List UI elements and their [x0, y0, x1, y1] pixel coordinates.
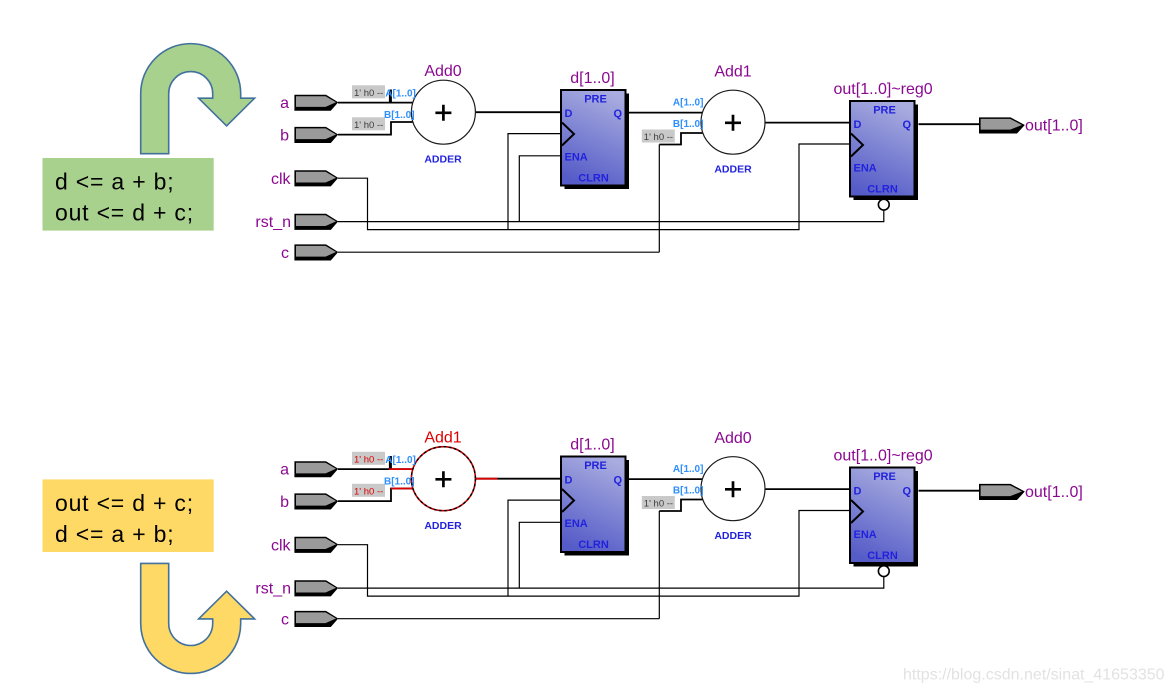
input pin b — [294, 127, 338, 143]
wire clk branch to dff clock — [508, 500, 561, 596]
svg-text:1' h0 --: 1' h0 -- — [354, 88, 383, 99]
svg-text:PRE: PRE — [873, 105, 896, 117]
svg-text:A[1..0]: A[1..0] — [385, 89, 416, 100]
svg-text:out[1..0]: out[1..0] — [1025, 484, 1083, 501]
adder Add0 — [701, 457, 765, 521]
svg-text:ENA: ENA — [854, 163, 877, 175]
svg-text:CLRN: CLRN — [867, 550, 898, 562]
input pin a — [294, 95, 338, 111]
svg-text:d <= a + b;: d <= a + b; — [55, 169, 174, 195]
input pin clk — [294, 537, 338, 553]
wire rst_n branch to dff ENA — [519, 522, 561, 588]
bottom circuit — [255, 430, 1082, 629]
svg-text:Q: Q — [902, 119, 911, 131]
svg-text:B[1..0]: B[1..0] — [384, 110, 415, 121]
svg-text:A[1..0]: A[1..0] — [385, 455, 416, 466]
constant label A of adder1 — [352, 85, 385, 98]
svg-text:clk: clk — [271, 538, 292, 555]
wire reg Q to output pin — [919, 490, 980, 492]
svg-text:Add0: Add0 — [714, 430, 751, 447]
svg-text:D: D — [565, 475, 573, 487]
svg-text:d[1..0]: d[1..0] — [570, 70, 614, 87]
svg-text:ADDER: ADDER — [714, 164, 752, 176]
wire reg Q to output pin — [919, 123, 980, 125]
svg-text:d <= a + b;: d <= a + b; — [55, 521, 174, 547]
wire a to adder A input — [338, 102, 413, 104]
wire dff Q to adder2 A — [629, 478, 703, 480]
svg-text:ENA: ENA — [565, 152, 588, 164]
yellow code box — [43, 479, 214, 552]
green code box — [43, 158, 214, 231]
svg-text:out[1..0]: out[1..0] — [1025, 118, 1083, 135]
svg-text:b: b — [280, 494, 289, 511]
svg-text:B[1..0]: B[1..0] — [673, 119, 704, 130]
input pin clk — [294, 170, 338, 186]
svg-text:CLRN: CLRN — [578, 539, 609, 551]
svg-text:1' h0 --: 1' h0 -- — [354, 120, 383, 131]
svg-text:d[1..0]: d[1..0] — [570, 437, 614, 454]
svg-text:CLRN: CLRN — [578, 173, 609, 185]
svg-text:Q: Q — [613, 475, 622, 487]
input pin rst_n — [294, 580, 338, 596]
yellow u-turn arrow — [141, 563, 255, 673]
svg-text:B[1..0]: B[1..0] — [384, 477, 415, 488]
svg-text:out <= d + c;: out <= d + c; — [55, 200, 194, 226]
svg-text:PRE: PRE — [873, 471, 896, 483]
svg-text:ENA: ENA — [854, 529, 877, 541]
wire net rst_n — [338, 210, 884, 222]
svg-text:ADDER: ADDER — [424, 154, 462, 166]
D flip-flop out[1..0]~reg0 — [854, 105, 919, 201]
constant label B of adder1 — [352, 117, 385, 130]
svg-text:PRE: PRE — [584, 460, 607, 472]
wire clk branch to dff clock — [508, 134, 561, 230]
svg-text:Add0: Add0 — [424, 63, 461, 80]
wire net c — [338, 145, 659, 253]
svg-text:c: c — [281, 245, 289, 262]
svg-text:1' h0 --: 1' h0 -- — [354, 454, 383, 465]
D flip-flop d[1..0] — [565, 94, 630, 190]
output pin out[1..0] — [979, 117, 1025, 133]
svg-text:c: c — [281, 612, 289, 629]
svg-text:A[1..0]: A[1..0] — [673, 97, 704, 108]
wire adder1 out to dff D — [475, 111, 561, 113]
wire rst_n branch to dff ENA — [519, 156, 561, 222]
svg-text:PRE: PRE — [584, 94, 607, 106]
svg-text:out[1..0]~reg0: out[1..0]~reg0 — [834, 81, 933, 98]
input pin c — [294, 611, 338, 627]
svg-text:D: D — [854, 119, 862, 131]
wire a to adder A input — [338, 468, 413, 470]
wire adder2 out to reg D — [765, 488, 850, 490]
A input constant stub — [389, 90, 392, 104]
adder Add0 — [411, 80, 475, 144]
wire adder1 out to dff D — [475, 478, 561, 480]
svg-text:a: a — [280, 462, 289, 479]
constant label A of adder1 — [352, 452, 385, 465]
constant label B of adder2 — [642, 130, 675, 143]
wire adder2 out to reg D — [765, 122, 850, 124]
input pin a — [294, 461, 338, 477]
wire net rst_n — [338, 577, 884, 589]
CLRN inverter bubble — [878, 566, 889, 577]
svg-text:ADDER: ADDER — [714, 530, 752, 542]
svg-text:1' h0 --: 1' h0 -- — [644, 132, 673, 143]
wire net c — [338, 511, 659, 619]
wire c to adder2 B (upper part) — [659, 133, 702, 145]
wire net clk — [338, 144, 850, 230]
svg-text:out <= d + c;: out <= d + c; — [55, 490, 194, 516]
D flip-flop d[1..0] — [565, 460, 630, 556]
adder Add1 — [701, 90, 765, 154]
svg-text:rst_n: rst_n — [255, 214, 291, 231]
svg-text:1' h0 --: 1' h0 -- — [354, 486, 383, 497]
svg-text:a: a — [280, 95, 289, 112]
svg-text:Q: Q — [902, 486, 911, 498]
constant label B of adder2 — [642, 496, 675, 509]
svg-text:rst_n: rst_n — [255, 581, 291, 598]
wire b to adder B input — [338, 489, 413, 502]
svg-text:Q: Q — [613, 108, 622, 120]
svg-text:Add1: Add1 — [424, 430, 461, 447]
CLRN inverter bubble — [878, 199, 889, 210]
svg-text:ADDER: ADDER — [424, 520, 462, 532]
adder Add1 — [411, 447, 475, 511]
svg-text:D: D — [854, 486, 862, 498]
svg-text:1' h0 --: 1' h0 -- — [644, 499, 673, 510]
svg-text:CLRN: CLRN — [867, 184, 898, 196]
top circuit — [255, 63, 1082, 262]
svg-text:A[1..0]: A[1..0] — [673, 464, 704, 475]
svg-text:B[1..0]: B[1..0] — [673, 486, 704, 497]
red highlighted wire segments — [389, 468, 413, 470]
svg-text:ENA: ENA — [565, 518, 588, 530]
input pin c — [294, 244, 338, 260]
wire c to adder2 B (upper part) — [659, 500, 702, 512]
wire net clk — [338, 511, 850, 597]
svg-text:D: D — [565, 108, 573, 120]
D flip-flop out[1..0]~reg0 — [854, 471, 919, 567]
svg-text:clk: clk — [271, 171, 292, 188]
output pin out[1..0] — [979, 484, 1025, 500]
svg-text:b: b — [280, 128, 289, 145]
svg-text:https://blog.csdn.net/sinat_41: https://blog.csdn.net/sinat_41653350 — [903, 667, 1165, 684]
input pin rst_n — [294, 214, 338, 230]
wire dff Q to adder2 A — [629, 112, 703, 114]
green u-turn arrow — [141, 44, 255, 154]
svg-text:out[1..0]~reg0: out[1..0]~reg0 — [834, 448, 933, 465]
A input constant stub — [389, 456, 392, 470]
wire b to adder B input — [338, 122, 413, 135]
input pin b — [294, 493, 338, 509]
constant label B of adder1 — [352, 484, 385, 497]
svg-text:Add1: Add1 — [714, 64, 751, 81]
